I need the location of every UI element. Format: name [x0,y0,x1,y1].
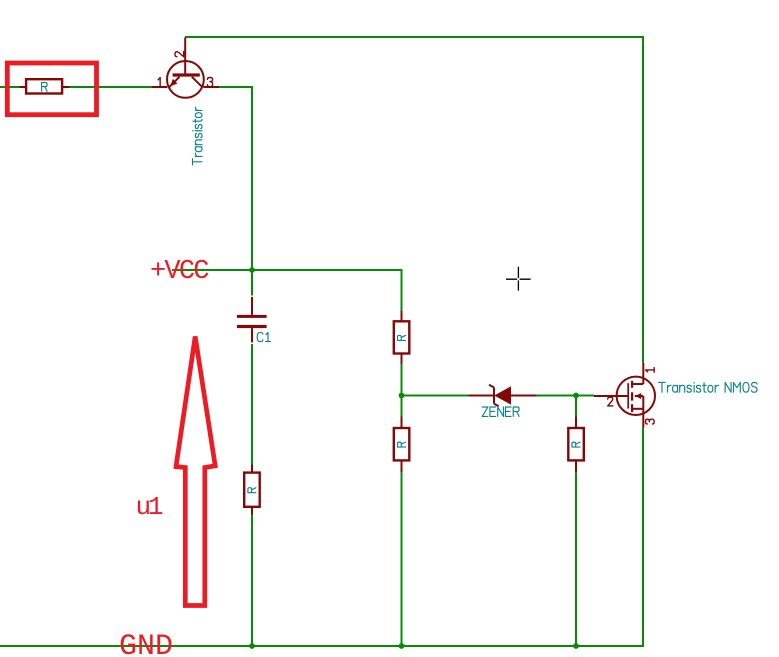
svg-text:GND: GND [119,630,173,657]
svg-text:+VCC: +VCC [150,257,210,287]
svg-text:u1: u1 [136,492,164,522]
